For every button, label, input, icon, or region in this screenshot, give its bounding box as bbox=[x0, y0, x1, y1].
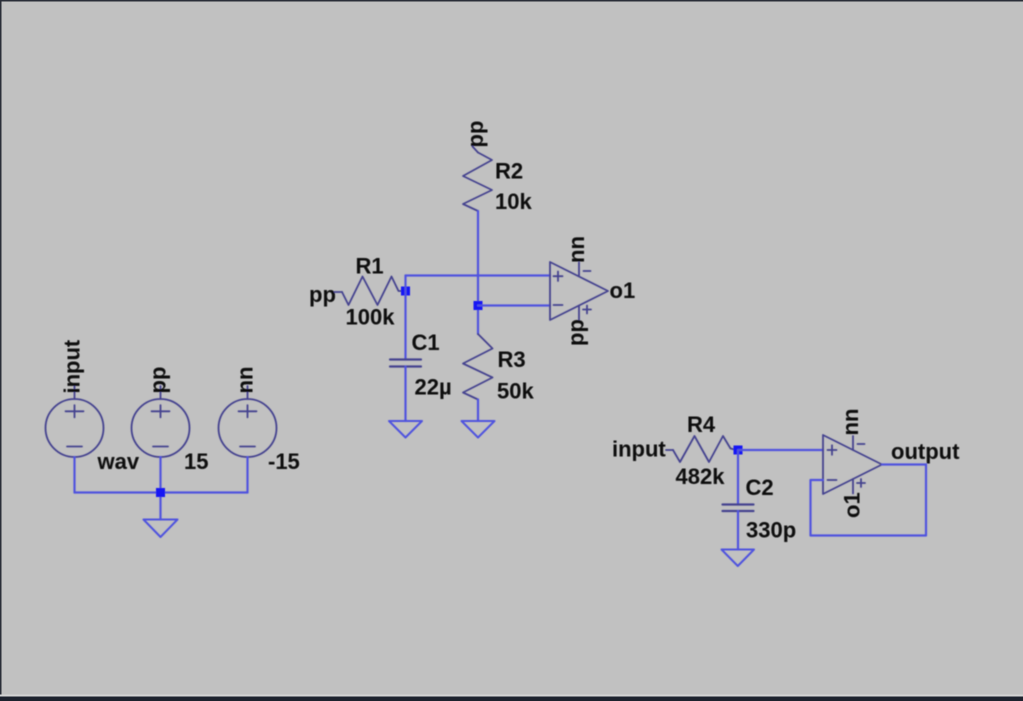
svg-text:o1: o1 bbox=[840, 492, 865, 518]
resistor R2 body bbox=[463, 153, 492, 212]
svg-text:input: input bbox=[612, 437, 666, 462]
feedback wire loop bbox=[811, 465, 927, 536]
U1 bottom pin plus mark bbox=[583, 306, 591, 314]
svg-text:pp: pp bbox=[146, 367, 171, 394]
wire C2 to ground bbox=[737, 511, 739, 550]
status bar light edge bbox=[0, 695, 1023, 697]
svg-text:pp: pp bbox=[463, 121, 488, 148]
window left border line bbox=[0, 0, 2, 697]
U1 bottom power pin bbox=[578, 306, 580, 320]
voltage source V_nn circle bbox=[219, 399, 277, 457]
junction R2/R3/minus-input bbox=[474, 301, 483, 310]
svg-text:R4: R4 bbox=[687, 412, 716, 437]
resistor R4 body bbox=[673, 436, 735, 462]
U1 top pin minus mark bbox=[584, 270, 591, 272]
wire junction down to C1 bbox=[404, 291, 406, 360]
wire junction to ground bbox=[159, 493, 161, 520]
wire V_pp bottom bbox=[159, 457, 161, 493]
svg-text:o1: o1 bbox=[610, 278, 636, 303]
svg-text:wav: wav bbox=[97, 449, 140, 474]
op-amp U1 triangle bbox=[550, 262, 608, 320]
U2 minus input glyph bbox=[828, 479, 837, 481]
V_input minus sign bbox=[67, 446, 82, 448]
wire junction to op-amp U1 minus input bbox=[478, 304, 550, 306]
U2 bottom power pin bbox=[852, 479, 854, 494]
junction R1/C1/wire bbox=[401, 287, 410, 296]
svg-text:pp: pp bbox=[309, 282, 336, 307]
svg-text:330p: 330p bbox=[746, 518, 796, 543]
ground G3 bbox=[462, 421, 495, 438]
U1 minus input glyph bbox=[554, 304, 563, 306]
V_nn plus sign bbox=[239, 405, 257, 417]
U2 bottom pin plus mark bbox=[857, 479, 865, 487]
svg-text:C2: C2 bbox=[746, 475, 774, 500]
junction sources bbox=[156, 488, 165, 497]
svg-text:22µ: 22µ bbox=[415, 375, 452, 400]
V_pp plus sign bbox=[152, 405, 170, 417]
V_pp top pin stub bbox=[160, 386, 162, 399]
wire junction up bbox=[404, 276, 406, 292]
wire C1 to ground bbox=[404, 367, 406, 422]
svg-text:R1: R1 bbox=[356, 254, 384, 279]
U1 plus input glyph bbox=[554, 272, 563, 282]
svg-text:R3: R3 bbox=[498, 347, 526, 372]
pp label hook bbox=[473, 147, 479, 153]
voltage source V_pp circle bbox=[132, 399, 190, 457]
ground G2 bbox=[389, 421, 422, 438]
ground G1 bbox=[144, 520, 178, 538]
wire junction to op-amp U2 plus input bbox=[738, 449, 823, 451]
V_input top pin stub bbox=[74, 386, 76, 399]
wire V_input bottom bbox=[73, 457, 75, 493]
wire to op-amp U1 plus input bbox=[406, 274, 551, 276]
svg-text:10k: 10k bbox=[495, 189, 532, 214]
U1 top power pin bbox=[578, 263, 580, 277]
wire horizontal bus joining sources bbox=[75, 491, 248, 493]
wire junction down to C2 bbox=[737, 450, 739, 505]
svg-text:output: output bbox=[891, 439, 960, 464]
V_nn top pin stub bbox=[247, 386, 249, 399]
capacitor C2 plates bbox=[723, 505, 754, 512]
svg-text:-15: -15 bbox=[268, 449, 300, 474]
svg-text:nn: nn bbox=[564, 236, 589, 263]
wire R3 to ground bbox=[477, 400, 479, 422]
U2 top pin minus mark bbox=[858, 443, 865, 445]
op-amp U2 triangle bbox=[823, 435, 882, 494]
resistor R1 body bbox=[342, 277, 404, 306]
resistor R3 body bbox=[463, 334, 493, 400]
wire U2 output bbox=[882, 463, 926, 465]
net label pp hook bbox=[335, 291, 343, 293]
input label hook bbox=[666, 449, 673, 451]
V_pp minus sign bbox=[153, 446, 168, 448]
svg-text:R2: R2 bbox=[495, 159, 523, 184]
U2 plus input glyph bbox=[828, 445, 837, 455]
window top border line bbox=[0, 0, 1023, 2]
voltage source V_input circle bbox=[46, 399, 104, 457]
svg-text:482k: 482k bbox=[676, 464, 726, 489]
capacitor C1 plates bbox=[390, 360, 421, 367]
ground G4 bbox=[722, 550, 755, 567]
svg-text:pp: pp bbox=[564, 319, 589, 346]
V_input plus sign bbox=[66, 405, 84, 417]
svg-text:100k: 100k bbox=[346, 305, 396, 330]
wire R2 down through crossing to junction and R3 bbox=[477, 211, 479, 334]
svg-text:50k: 50k bbox=[497, 379, 534, 404]
svg-text:15: 15 bbox=[184, 449, 208, 474]
wire V_nn bottom bbox=[246, 457, 248, 493]
svg-text:input: input bbox=[60, 339, 85, 393]
svg-text:C1: C1 bbox=[412, 330, 440, 355]
U2 top power pin bbox=[852, 436, 854, 450]
svg-text:nn: nn bbox=[838, 409, 863, 436]
V_nn minus sign bbox=[240, 446, 255, 448]
window bottom status bar bbox=[0, 697, 1023, 701]
junction R4/C2/wire bbox=[734, 446, 743, 455]
svg-text:nn: nn bbox=[233, 367, 258, 394]
